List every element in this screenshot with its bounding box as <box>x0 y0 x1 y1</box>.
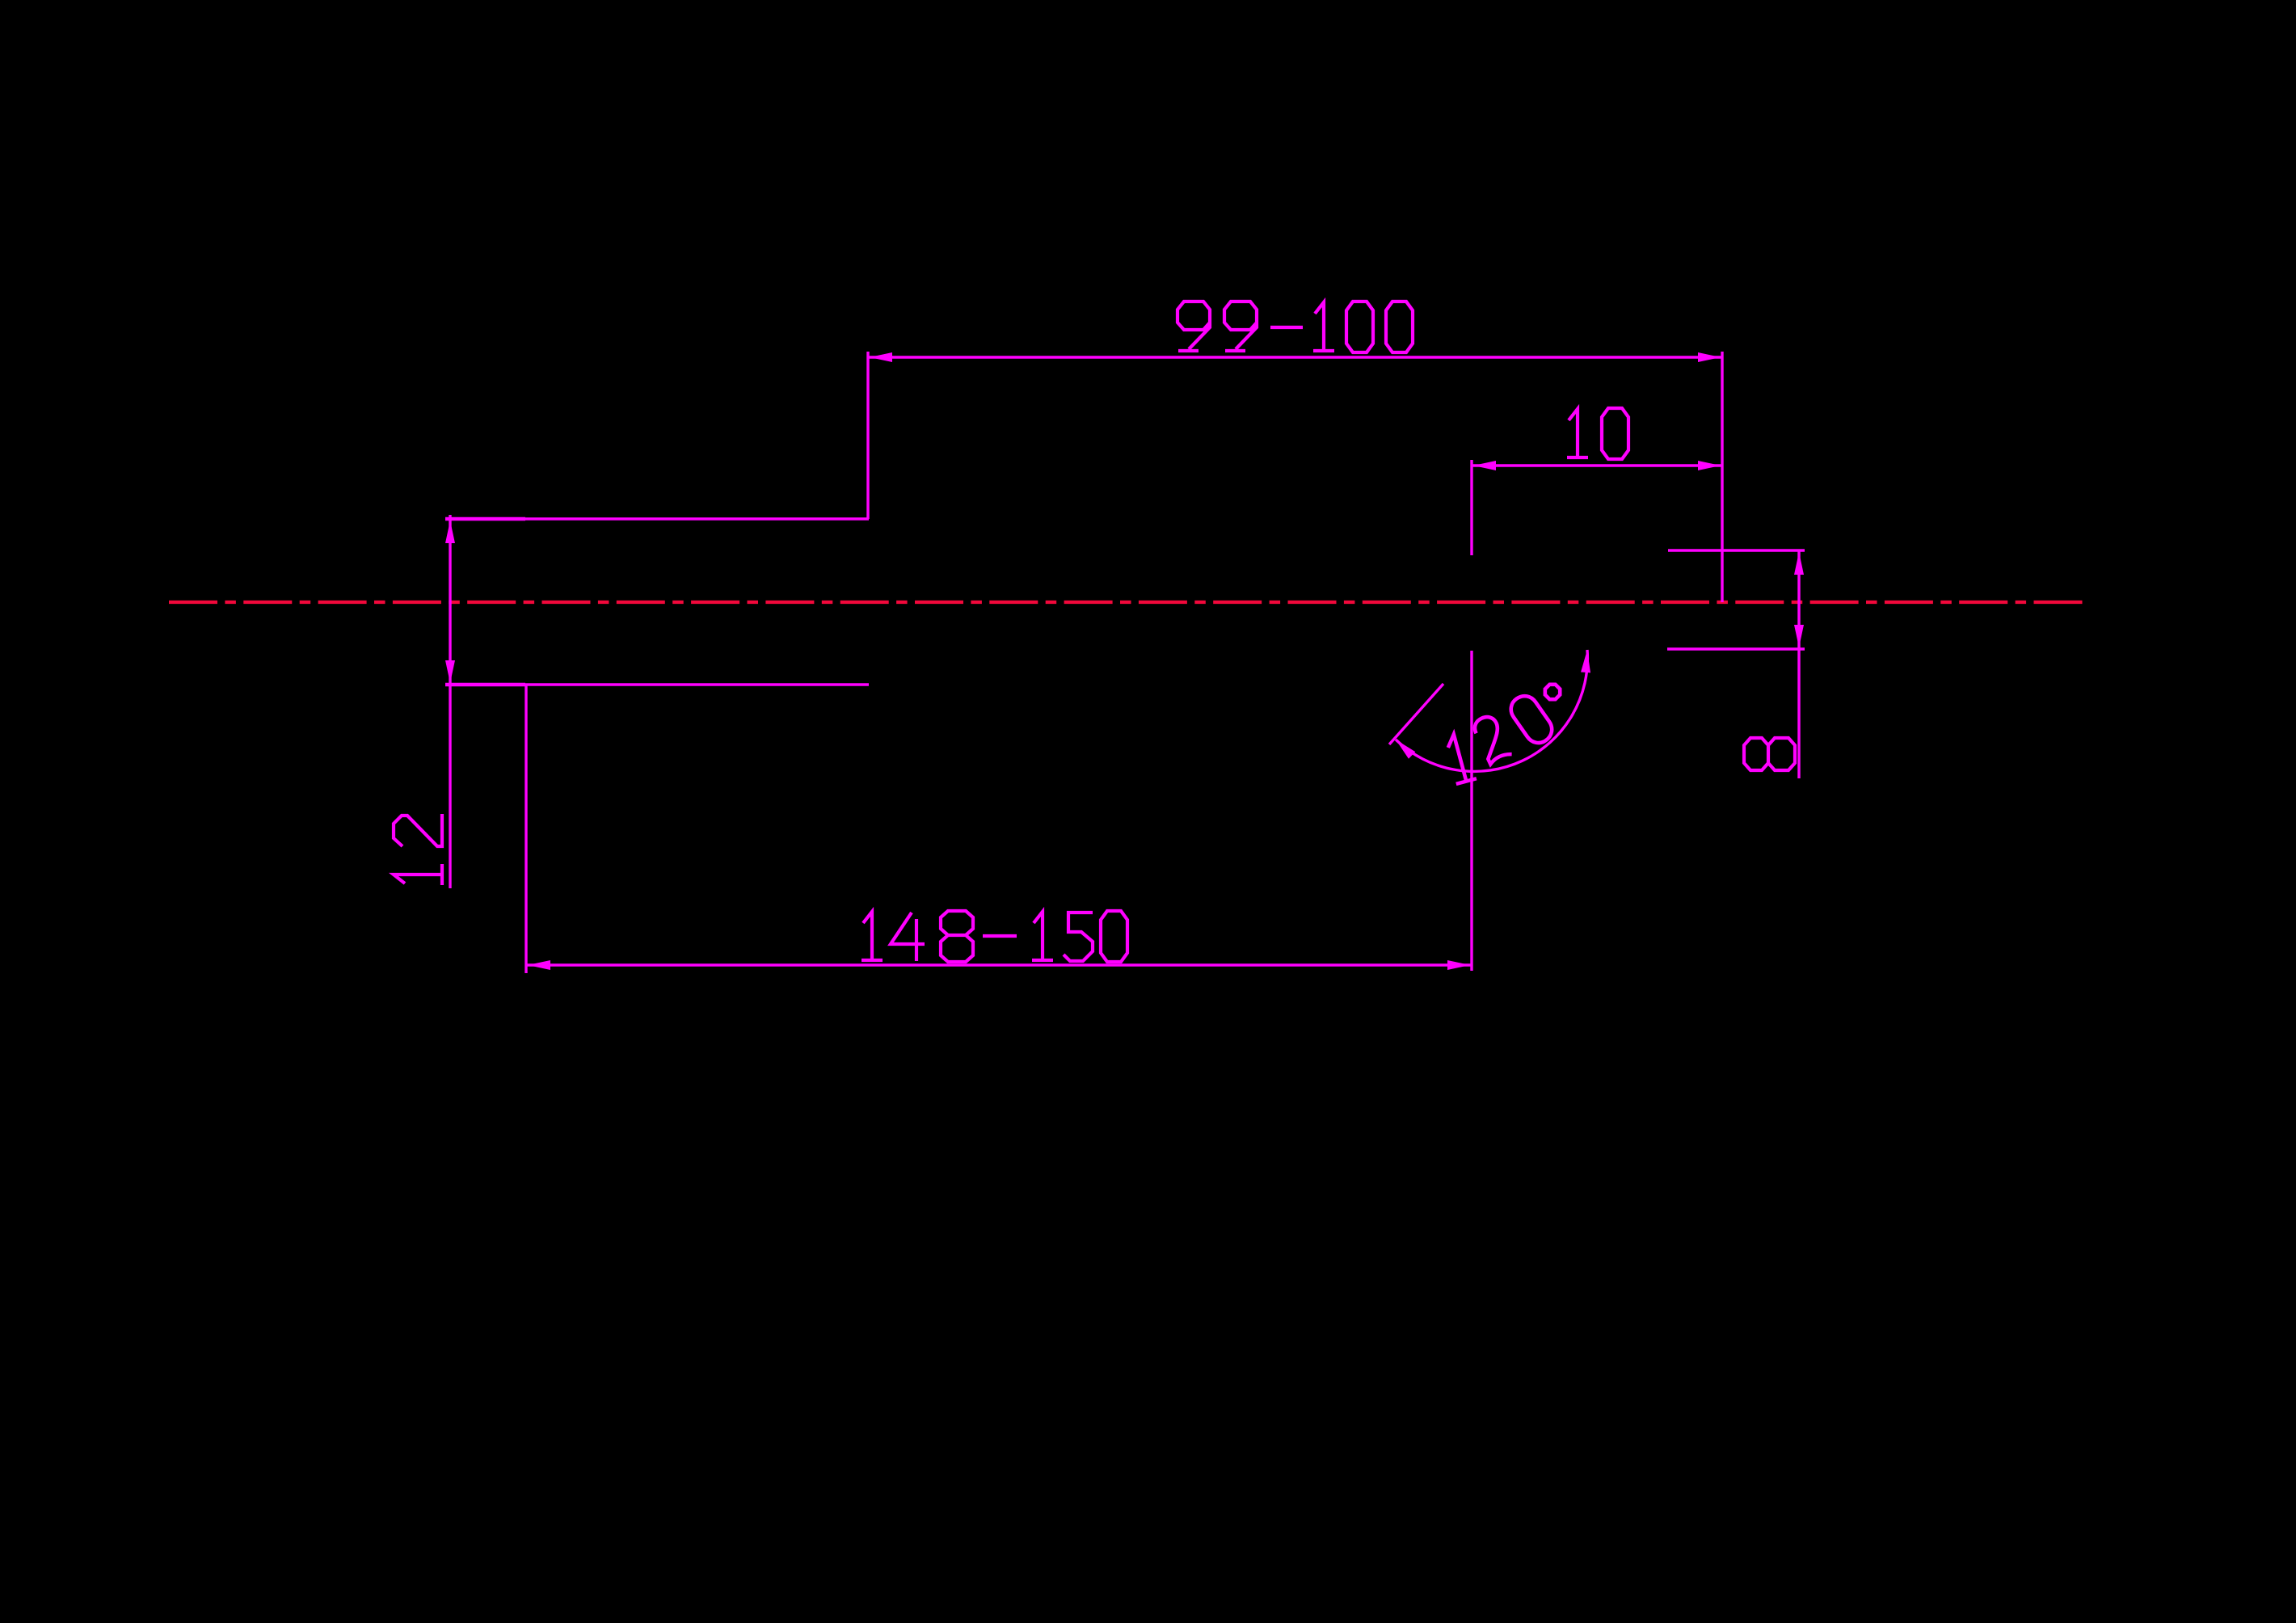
text 148-150 <box>862 911 1127 962</box>
text 120 deg: digit 0 <box>1506 691 1557 748</box>
arrow 99-100 left <box>870 352 892 362</box>
shaft top edge <box>445 517 869 520</box>
arrow arc right end <box>1581 650 1592 673</box>
arrow arc left end <box>1392 736 1415 759</box>
chamfer slant line <box>1389 684 1443 744</box>
angle arc 120 <box>1396 650 1587 771</box>
dimension line 10 <box>1472 464 1722 466</box>
arrow 12 up <box>445 521 455 543</box>
text 12 rotated <box>394 814 442 885</box>
arrow 10 left <box>1473 461 1496 470</box>
arrow 99-100 right <box>1698 352 1721 362</box>
text 120 deg: digit 1 <box>1443 731 1477 784</box>
dimension line 148-150 <box>526 963 1472 966</box>
text 120 deg: digit 2 <box>1472 713 1512 764</box>
shaft step edge / extension 99-100 left <box>866 352 869 519</box>
cone vertex line <box>1470 651 1472 971</box>
dimension line 99-100 <box>868 356 1722 358</box>
shaft bottom edge <box>445 683 869 685</box>
right step top edge <box>1668 549 1805 551</box>
right step bottom edge <box>1667 647 1805 650</box>
extension overlap bottom <box>445 683 525 687</box>
text 10 <box>1567 408 1628 459</box>
arrow 8 up <box>1794 552 1804 575</box>
text 99-100 <box>1177 301 1413 352</box>
arrow 8 down <box>1794 625 1804 647</box>
text 8 rotated <box>1744 738 1795 770</box>
dimension line 8 vertical <box>1797 550 1800 778</box>
centerline (red dash-dot axis) <box>169 601 2083 604</box>
arrow 148-150 left <box>528 960 550 970</box>
arrow 148-150 right <box>1447 960 1470 970</box>
text 120 deg: degree symbol <box>1542 681 1562 702</box>
arrow 12 down <box>445 660 455 683</box>
extension 148-150 left <box>524 685 527 973</box>
shaft right end / extension right <box>1721 352 1723 602</box>
dimension line 12 vertical <box>449 515 451 888</box>
extension 10 left <box>1470 460 1472 555</box>
extension overlap top <box>445 517 525 521</box>
arrow 10 right <box>1698 461 1721 470</box>
